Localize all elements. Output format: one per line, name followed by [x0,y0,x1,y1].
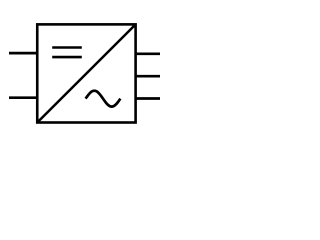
wire: left DC lead 1 [9,52,38,55]
DC symbol (=) upper bar [52,46,82,49]
wire: right AC lead 2 [135,75,160,78]
AC symbol (sine wave) [86,91,121,107]
wire: left DC lead 2 [9,96,38,99]
wire: right AC lead 3 [135,97,160,100]
DC symbol (=) lower bar [52,56,82,59]
wire: right AC lead 1 [135,52,160,55]
diagonal DC/AC divider [37,24,135,122]
inverter U1 box [37,24,135,122]
